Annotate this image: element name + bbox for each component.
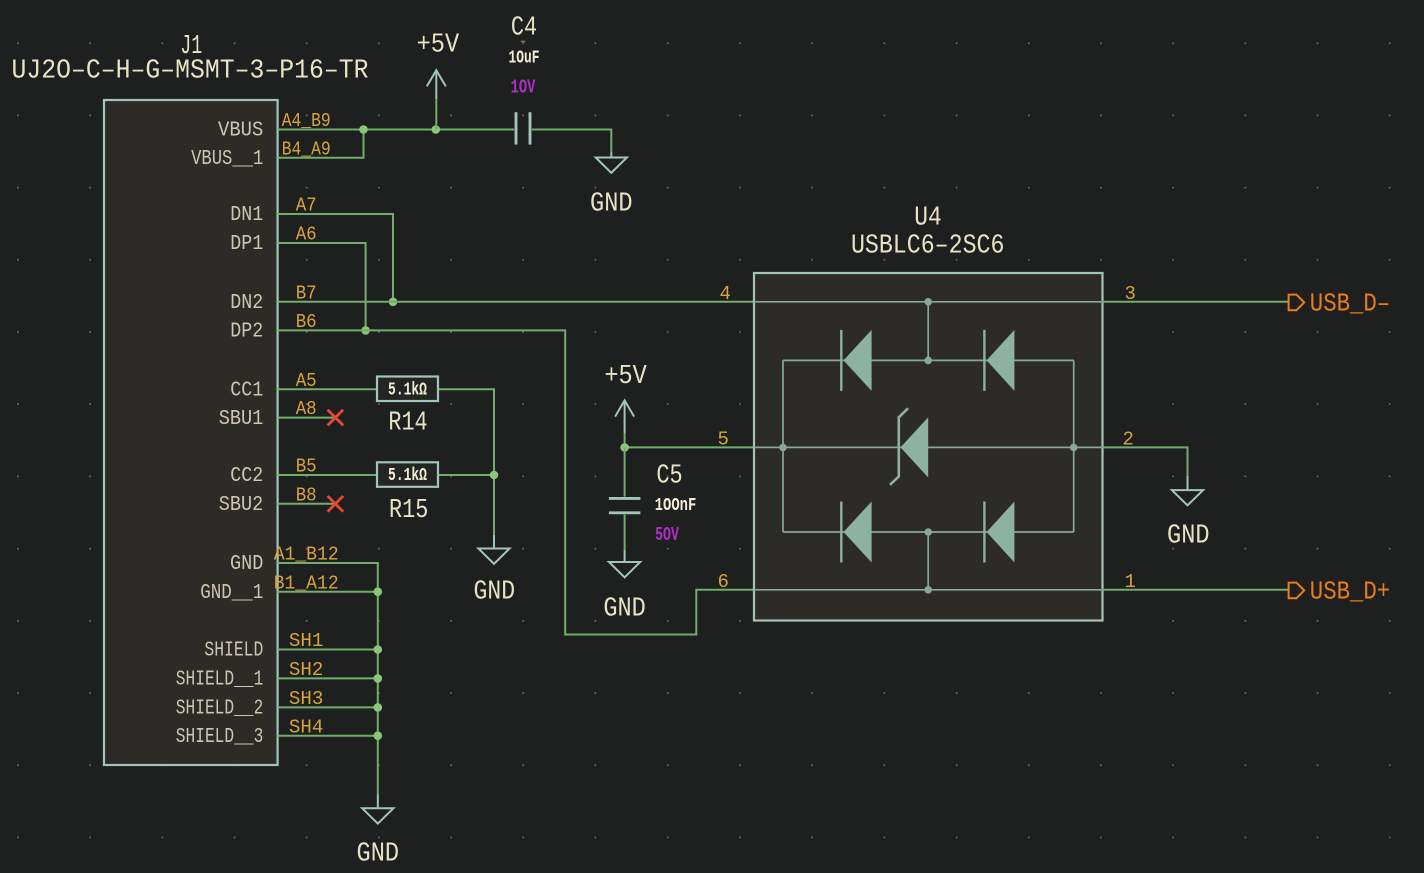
- wire GND__1 and shield rail: [278, 591, 378, 593]
- power +5V (top): [427, 70, 446, 99]
- U4 internal vertical bottom: [927, 532, 929, 590]
- svg-text:4: 4: [719, 283, 730, 305]
- wire U4 pin 3 to USB_D-: [1103, 301, 1289, 303]
- capacitor C4: [515, 112, 518, 144]
- wire U4 pin 1 to USB_D+: [1103, 589, 1289, 591]
- C4 hidden field tick: [521, 41, 525, 43]
- wire DP2 to U4 pin 6: [278, 330, 754, 634]
- svg-text:R15: R15: [389, 496, 428, 526]
- wire +5V to U4 pin 5: [625, 446, 754, 448]
- svg-text:1OuF: 1OuF: [509, 47, 540, 69]
- svg-text:1OV: 1OV: [511, 77, 536, 99]
- svg-text:USB_D–: USB_D–: [1310, 289, 1390, 319]
- svg-text:GND: GND: [357, 839, 400, 869]
- svg-text:R14: R14: [388, 409, 427, 439]
- U4 internal line pins 6-1: [754, 589, 1103, 591]
- svg-text:GND__1: GND__1: [200, 582, 263, 605]
- diode D2 upper-right: [984, 330, 1014, 391]
- svg-text:C4: C4: [511, 14, 537, 44]
- wire SH1 to shield rail: [278, 649, 378, 651]
- diode D3 lower-left: [841, 502, 871, 563]
- U4 lower diode rail: [783, 531, 1074, 533]
- power +5V (at C5): [615, 400, 634, 433]
- svg-text:1OOnF: 1OOnF: [655, 494, 697, 516]
- wire C4 to GND corner: [532, 130, 612, 153]
- connector J1 body: [104, 100, 278, 765]
- wire SBU1 stub: [278, 417, 336, 419]
- U4 left rail: [782, 360, 784, 532]
- ground symbol at J1 shield: [362, 794, 393, 823]
- junction DP1-DP2: [361, 326, 370, 335]
- resistor R15: [377, 462, 438, 487]
- wire SH3 to shield rail: [278, 706, 378, 708]
- wire SH4 to shield rail: [278, 735, 378, 737]
- U4 right rail: [1073, 360, 1075, 532]
- svg-text:GND: GND: [474, 578, 516, 608]
- wire DN2 to U4 pin 4: [278, 301, 754, 303]
- svg-text:GND: GND: [1167, 522, 1210, 552]
- svg-text:GND: GND: [590, 189, 633, 219]
- junction GND rail: [374, 587, 383, 596]
- svg-text:+5V: +5V: [417, 31, 460, 61]
- junction SH1: [374, 645, 383, 654]
- svg-text:USBLC6–2SC6: USBLC6–2SC6: [851, 231, 1005, 261]
- svg-text:GND: GND: [230, 553, 263, 576]
- svg-text:5.1kΩ: 5.1kΩ: [388, 378, 427, 400]
- svg-text:SBU1: SBU1: [219, 408, 264, 431]
- U4 upper diode rail: [783, 359, 1074, 361]
- wire DN1/A7 down to DN2 net: [278, 214, 393, 302]
- junction DN1-DN2: [389, 298, 398, 307]
- junction SH4: [374, 731, 383, 740]
- U4 internal junction bottom: [924, 586, 932, 594]
- svg-text:6: 6: [717, 571, 728, 593]
- no-connect SBU1: [328, 410, 344, 426]
- no-connect SBU2: [328, 496, 344, 512]
- diode D4 lower-right: [984, 502, 1014, 563]
- resistor R14: [377, 377, 438, 402]
- ground symbol at C4: [596, 153, 627, 173]
- svg-text:GND: GND: [603, 594, 646, 624]
- diode D1 upper-left: [841, 330, 871, 391]
- svg-text:C5: C5: [656, 462, 682, 492]
- svg-text:VBUS__1: VBUS__1: [191, 148, 263, 171]
- wire CC1 to R14: [278, 388, 377, 390]
- svg-text:DN2: DN2: [230, 292, 263, 315]
- svg-text:5.1kΩ: 5.1kΩ: [388, 464, 427, 486]
- U4 internal line pins 4-3: [754, 301, 1103, 303]
- U4 internal line pins 5-2: [754, 446, 1103, 448]
- junction +5V C5: [620, 443, 629, 452]
- wire VBUS to C4 and +5V: [278, 129, 515, 131]
- U4 internal junction lower: [924, 528, 932, 536]
- svg-text:CC1: CC1: [230, 379, 263, 402]
- junction SH3: [374, 703, 383, 712]
- svg-text:5: 5: [717, 429, 728, 451]
- IC U4 body: [754, 273, 1103, 621]
- svg-text:5OV: 5OV: [655, 524, 679, 546]
- wire VBUS__1 up to VBUS net: [278, 130, 364, 158]
- U4 internal junction right mid: [1070, 444, 1078, 452]
- wire U4 pin 2 to GND: [1103, 447, 1188, 476]
- svg-text:SHIELD__3: SHIELD__3: [176, 726, 264, 749]
- wire C5 to ground: [624, 515, 626, 550]
- hierarchical label USB_D-: [1289, 295, 1305, 311]
- U4 internal vertical top: [927, 302, 929, 361]
- zener diode DZ center: [890, 408, 928, 485]
- junction R15-GND rail: [490, 471, 499, 480]
- wire CC2 to R15: [278, 474, 377, 476]
- svg-text:UJ2O–C–H–G–MSMT–3–P16–TR: UJ2O–C–H–G–MSMT–3–P16–TR: [12, 57, 369, 87]
- wire junction down to C5: [624, 447, 626, 496]
- svg-text:DP2: DP2: [230, 321, 263, 344]
- capacitor C5: [609, 497, 641, 500]
- junction VBUS net: [359, 125, 368, 134]
- svg-text:SHIELD: SHIELD: [204, 640, 263, 663]
- wire SH2 to shield rail: [278, 677, 378, 679]
- hierarchical label USB_D+: [1289, 583, 1305, 599]
- wire SBU2 stub: [278, 503, 336, 505]
- svg-text:DP1: DP1: [230, 233, 263, 256]
- svg-text:U4: U4: [914, 203, 942, 233]
- wire R15 to GND rail: [438, 474, 494, 476]
- svg-text:+5V: +5V: [604, 362, 647, 392]
- ground symbol at U4 pin 2: [1172, 476, 1203, 505]
- U4 internal junction left mid: [779, 444, 787, 452]
- junction SH2: [374, 674, 383, 683]
- junction at +5V stem: [432, 125, 441, 134]
- U4 internal junction top: [924, 298, 932, 306]
- ground symbol at C5: [609, 550, 640, 577]
- wire DP1/A6 down to DP2 net: [278, 243, 366, 330]
- U4 internal junction upper rail: [924, 357, 932, 365]
- svg-text:CC2: CC2: [230, 465, 263, 488]
- svg-text:DN1: DN1: [230, 204, 263, 227]
- wire R14 to GND rail: [438, 389, 494, 535]
- svg-text:SHIELD__1: SHIELD__1: [176, 669, 264, 692]
- svg-text:SBU2: SBU2: [219, 494, 264, 517]
- svg-text:SHIELD__2: SHIELD__2: [176, 698, 264, 721]
- svg-text:VBUS: VBUS: [218, 120, 263, 143]
- ground symbol below R14/R15: [478, 535, 509, 564]
- svg-text:USB_D+: USB_D+: [1310, 577, 1390, 607]
- wire GND pin down: [278, 563, 378, 592]
